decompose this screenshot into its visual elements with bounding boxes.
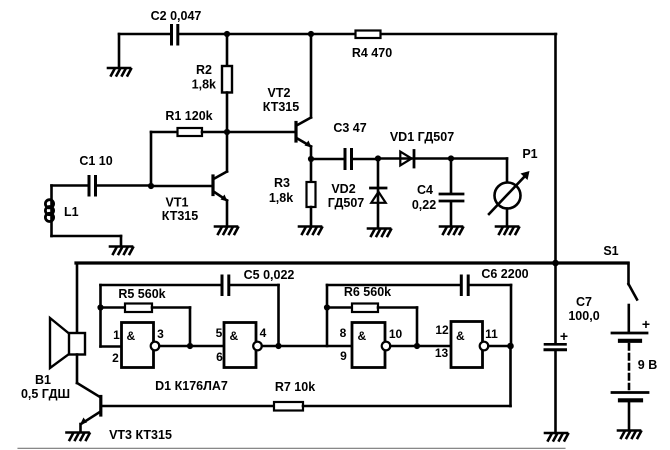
battery GB1 cell 1 <box>612 333 647 341</box>
ground (C7 / right rail) <box>545 433 568 441</box>
ground (VT3) <box>67 433 90 441</box>
resistor R5 <box>101 304 191 347</box>
svg-text:10: 10 <box>389 327 403 341</box>
svg-text:6: 6 <box>216 350 223 364</box>
node R5 drop on gate1 output <box>187 343 193 349</box>
svg-text:9: 9 <box>340 349 347 363</box>
node C3/VD1/VD2 <box>375 155 381 161</box>
gate D1.1 <box>101 323 160 368</box>
ground (C4) <box>440 227 463 235</box>
node rail/R2 <box>224 31 230 37</box>
capacitor C5 <box>101 276 279 347</box>
capacitor C6 <box>327 276 511 346</box>
resistor R4 <box>356 31 381 39</box>
svg-text:R7 10k: R7 10k <box>275 380 315 394</box>
svg-text:ГД507: ГД507 <box>328 196 365 210</box>
battery GB1 cell 2 <box>612 393 648 401</box>
svg-text:R3: R3 <box>274 176 290 190</box>
ground (top left) <box>108 68 131 76</box>
ground (R3) <box>299 227 322 235</box>
gate D1.4 <box>451 322 488 368</box>
wire gate1 out to gate2 <box>159 345 224 348</box>
svg-text:2: 2 <box>112 351 119 365</box>
svg-text:R1 120k: R1 120k <box>165 109 212 123</box>
svg-text:11: 11 <box>485 327 498 341</box>
inductor L1 <box>45 186 121 247</box>
ground (VT1 emitter) <box>215 227 238 235</box>
svg-text:&: & <box>230 329 239 343</box>
resistor R3 <box>307 159 316 226</box>
wire speaker drop <box>76 263 79 333</box>
ground (P1) <box>496 227 519 235</box>
wire VT2 base <box>227 131 295 134</box>
capacitor C2 <box>172 26 178 45</box>
resistor R2 <box>222 34 232 132</box>
svg-text:R5 560k: R5 560k <box>118 287 165 301</box>
capacitor C3 <box>311 150 378 169</box>
wire below C7 to ground <box>554 351 557 433</box>
wire battery to ground <box>628 402 631 430</box>
transistor VT2 <box>296 34 312 159</box>
page bottom scan line <box>18 447 565 449</box>
wire lower supply rail <box>76 261 628 264</box>
wire gate2 out to gate3 <box>262 345 352 348</box>
wire gate4 out <box>488 345 510 348</box>
svg-text:VT1: VT1 <box>166 196 189 210</box>
svg-text:C7: C7 <box>576 295 592 309</box>
node rail/VT2 collector <box>308 31 314 37</box>
gate D1.3 <box>352 323 390 368</box>
svg-text:VT3 КТ315: VT3 КТ315 <box>109 428 172 442</box>
node VD1/C4/P1 <box>448 155 454 161</box>
svg-text:C3 47: C3 47 <box>333 121 366 135</box>
svg-text:R4 470: R4 470 <box>352 46 392 60</box>
transistor VT3 <box>77 383 101 432</box>
svg-text:0,22: 0,22 <box>412 198 436 212</box>
svg-text:3: 3 <box>157 327 164 341</box>
svg-text:L1: L1 <box>64 205 79 219</box>
svg-text:VD2: VD2 <box>331 182 355 196</box>
node R5 tap on gate1 input <box>97 304 103 310</box>
svg-text:&: & <box>456 329 465 343</box>
svg-text:+: + <box>560 328 568 344</box>
meter P1 <box>451 159 530 227</box>
svg-text:P1: P1 <box>522 147 537 161</box>
wire right vertical drop to C7 <box>554 34 557 344</box>
node R6 drop on gate3 output <box>414 343 420 349</box>
svg-text:S1: S1 <box>603 244 618 258</box>
svg-text:12: 12 <box>435 323 449 337</box>
transistor VT1 <box>151 132 228 226</box>
svg-text:1,8k: 1,8k <box>192 78 216 92</box>
svg-text:C6 2200: C6 2200 <box>481 267 528 281</box>
svg-text:VD1 ГД507: VD1 ГД507 <box>390 130 454 144</box>
resistor R7 <box>102 346 511 411</box>
svg-text:&: & <box>358 329 367 343</box>
svg-text:&: & <box>127 329 136 343</box>
capacitor C1 <box>52 177 152 196</box>
svg-text:9 В: 9 В <box>638 358 657 372</box>
svg-text:КТ315: КТ315 <box>162 209 198 223</box>
wire battery dashed link <box>628 344 631 389</box>
svg-text:1: 1 <box>113 328 120 342</box>
node R6 tap on gate3 input riser <box>324 304 330 310</box>
node R1/R2/VT1/VT2 <box>224 129 230 135</box>
wire rail R4 to right corner <box>380 33 556 36</box>
svg-text:1,8k: 1,8k <box>269 191 293 205</box>
resistor R1 <box>151 128 227 186</box>
ground (battery) <box>618 431 641 439</box>
wire C2 left end down to ground <box>118 34 121 67</box>
resistor R6 <box>327 304 417 347</box>
diode VD2 <box>371 159 387 229</box>
svg-text:5: 5 <box>216 326 223 340</box>
svg-text:D1 К176ЛА7: D1 К176ЛА7 <box>155 379 228 393</box>
gate D1.2 <box>224 323 262 368</box>
wire gate3 out to gate4 <box>390 345 451 348</box>
svg-text:13: 13 <box>435 346 449 360</box>
wire rail C2 to R4 <box>179 33 356 36</box>
capacitor C4 <box>440 159 463 227</box>
node C5 drop on gate2 output <box>275 343 281 349</box>
node gate4 out / C6 / R7 <box>507 343 514 350</box>
svg-text:КТ315: КТ315 <box>263 100 299 114</box>
svg-text:+: + <box>642 316 650 332</box>
svg-text:C5 0,022: C5 0,022 <box>244 268 295 282</box>
svg-text:100,0: 100,0 <box>568 309 599 323</box>
capacitor C7 <box>545 344 566 350</box>
wire top supply rail <box>119 33 170 36</box>
svg-text:C2 0,047: C2 0,047 <box>151 9 202 23</box>
diode VD1 <box>378 151 451 168</box>
ground (L1) <box>110 247 133 255</box>
node C1/R1 junction <box>148 183 154 189</box>
svg-text:C4: C4 <box>417 183 433 197</box>
svg-text:0,5 ГДШ: 0,5 ГДШ <box>21 387 70 401</box>
svg-text:R2: R2 <box>196 63 212 77</box>
svg-text:VT2: VT2 <box>268 86 291 100</box>
node rail/C7 <box>552 260 559 267</box>
svg-text:R6 560k: R6 560k <box>344 285 391 299</box>
svg-text:8: 8 <box>340 326 347 340</box>
node VT2 emitter / R3 / C3 <box>308 156 314 162</box>
switch S1 <box>629 263 638 332</box>
ground (VD2) <box>368 229 391 237</box>
svg-text:4: 4 <box>260 326 267 340</box>
svg-text:C1 10: C1 10 <box>79 154 112 168</box>
svg-text:B1: B1 <box>35 373 51 387</box>
speaker B1 <box>50 318 85 383</box>
